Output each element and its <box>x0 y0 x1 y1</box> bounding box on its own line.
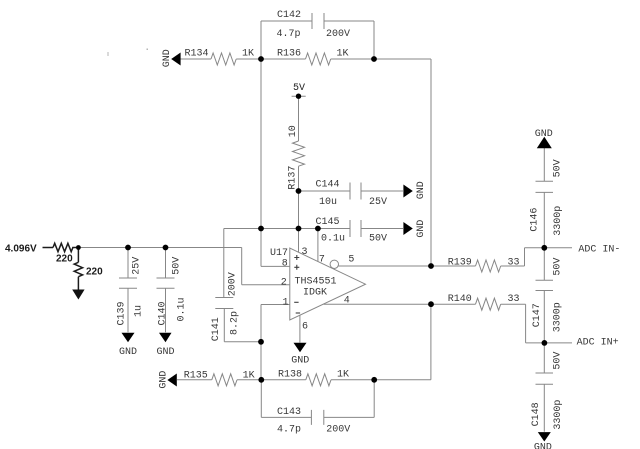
svg-text:R135: R135 <box>184 370 208 381</box>
svg-text:50V: 50V <box>552 352 563 370</box>
svg-text:4.7p: 4.7p <box>277 29 301 40</box>
svg-text:10: 10 <box>288 125 299 137</box>
svg-text:25V: 25V <box>369 197 387 208</box>
svg-text:50V: 50V <box>369 234 387 245</box>
svg-text:C143: C143 <box>277 407 301 418</box>
svg-text:220: 220 <box>86 266 103 277</box>
svg-text:C148: C148 <box>531 402 542 426</box>
svg-text:ADC IN-: ADC IN- <box>578 244 620 255</box>
svg-text:4.7p: 4.7p <box>277 425 301 436</box>
svg-text:R137: R137 <box>287 166 298 190</box>
svg-text:R139: R139 <box>448 257 472 268</box>
svg-text:33: 33 <box>508 257 520 268</box>
svg-text:10u: 10u <box>319 197 337 208</box>
svg-text:C139: C139 <box>116 301 127 325</box>
svg-text:GND: GND <box>416 220 427 238</box>
svg-text:ADC IN+: ADC IN+ <box>577 338 619 349</box>
svg-text:C146: C146 <box>529 208 540 232</box>
svg-text:C144: C144 <box>316 180 340 191</box>
svg-text:7: 7 <box>319 254 325 265</box>
svg-text:25V: 25V <box>131 257 142 275</box>
svg-text:0.1u: 0.1u <box>321 234 345 245</box>
svg-text:GND: GND <box>416 181 427 199</box>
svg-text:3300p: 3300p <box>553 400 564 430</box>
svg-text:3: 3 <box>302 247 308 258</box>
svg-text:220: 220 <box>56 253 73 264</box>
svg-text:4: 4 <box>344 296 350 307</box>
svg-text:3300p: 3300p <box>553 302 564 332</box>
svg-text:4.096V: 4.096V <box>5 243 37 254</box>
svg-text:50V: 50V <box>171 257 182 275</box>
svg-text:2: 2 <box>281 278 287 289</box>
svg-text:R134: R134 <box>185 49 209 60</box>
svg-text:1K: 1K <box>243 370 255 381</box>
svg-text:50V: 50V <box>552 159 563 177</box>
svg-text:R140: R140 <box>448 294 472 305</box>
svg-text:200V: 200V <box>326 425 350 436</box>
svg-text:0.1u: 0.1u <box>176 297 187 321</box>
svg-text:C142: C142 <box>277 10 301 21</box>
svg-text:1u: 1u <box>133 305 144 317</box>
svg-text:GND: GND <box>119 347 137 358</box>
svg-text:IDGK: IDGK <box>303 288 327 299</box>
svg-text:200V: 200V <box>227 272 238 296</box>
svg-text:1K: 1K <box>242 49 254 60</box>
svg-text:33: 33 <box>508 294 520 305</box>
svg-text:GND: GND <box>535 129 553 140</box>
svg-text:8: 8 <box>282 259 288 270</box>
svg-text:200V: 200V <box>326 29 350 40</box>
svg-text:C140: C140 <box>157 301 168 325</box>
svg-text:GND: GND <box>157 347 175 358</box>
svg-text:C141: C141 <box>211 317 222 341</box>
svg-text:1K: 1K <box>337 370 349 381</box>
svg-text:3300p: 3300p <box>553 206 564 236</box>
svg-text:R138: R138 <box>278 370 302 381</box>
svg-text:1: 1 <box>283 297 289 308</box>
svg-text:R136: R136 <box>277 49 301 60</box>
svg-text:C145: C145 <box>316 217 340 228</box>
svg-text:U17: U17 <box>270 248 288 259</box>
svg-text:50V: 50V <box>552 258 563 276</box>
svg-text:GND: GND <box>159 371 170 389</box>
svg-text:8.2p: 8.2p <box>229 311 240 335</box>
svg-text:6: 6 <box>302 321 308 332</box>
svg-text:THS4551: THS4551 <box>295 276 337 287</box>
svg-text:5: 5 <box>348 254 354 265</box>
svg-text:5V: 5V <box>293 83 305 94</box>
svg-text:1K: 1K <box>337 49 349 60</box>
svg-text:GND: GND <box>291 356 309 367</box>
svg-text:GND: GND <box>534 443 552 449</box>
svg-text:C147: C147 <box>532 303 543 327</box>
svg-text:GND: GND <box>162 49 173 67</box>
